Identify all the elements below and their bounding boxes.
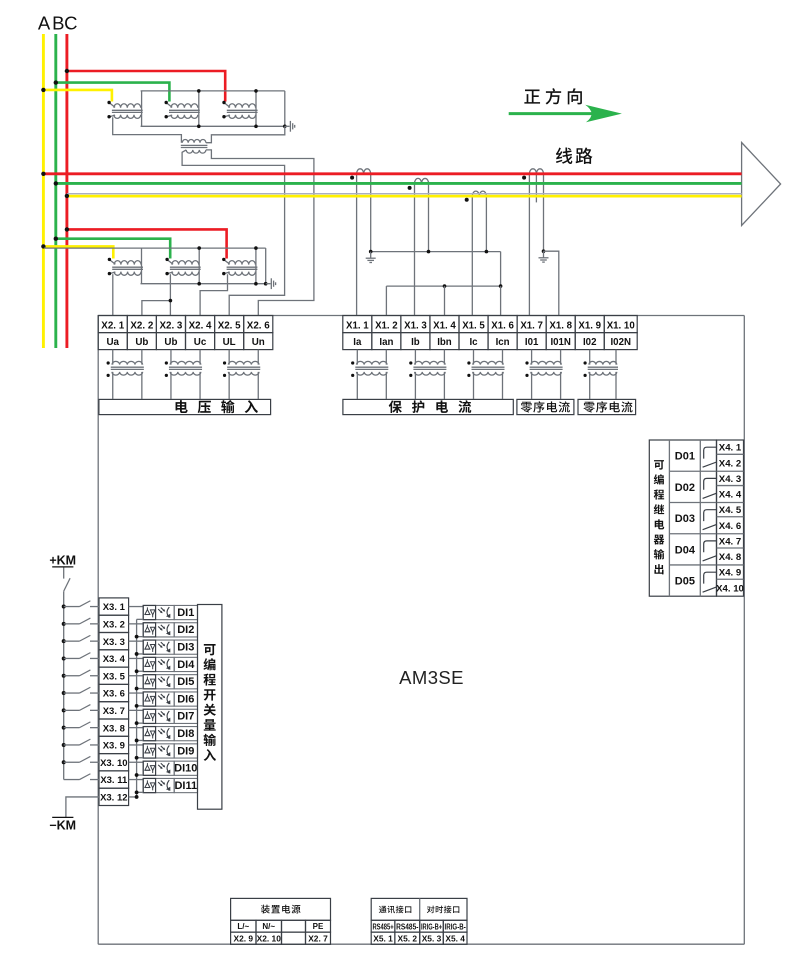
transformer T1 (PT phase A, line side) — [107, 101, 142, 119]
svg-text:X1. 6: X1. 6 — [491, 320, 514, 331]
svg-text:RS485-: RS485- — [396, 922, 419, 931]
optocoupler DI10 — [129, 761, 198, 775]
svg-text:X1. 4: X1. 4 — [433, 320, 456, 331]
wire Ibn to X1.4 — [444, 286, 446, 315]
wire CT neutral bus — [386, 284, 502, 288]
svg-text:X2. 10: X2. 10 — [257, 934, 282, 944]
label +KM — [49, 554, 76, 568]
current transformer TA2 (Ib) on green line — [408, 178, 429, 190]
wire T5 primary-right riser — [198, 248, 200, 284]
label box 零序电流 1 (zero-seq current) — [517, 399, 574, 414]
relay contact K1 — [703, 447, 717, 467]
wire Icn to X1.6 — [500, 286, 502, 315]
label 正方向 (forward direction) — [524, 90, 540, 104]
svg-text:DI7: DI7 — [177, 711, 194, 723]
relay contact K4 — [703, 541, 717, 561]
transformer T3 (PT phase C, line side) — [222, 101, 257, 119]
transformer T6 (PT phase C, bus side) — [222, 258, 257, 276]
power supply box 装置电源 frame — [231, 898, 331, 920]
wire T6 secondary to Uc (X2.4) — [200, 274, 227, 315]
wire Ub jumper X2.2 — [142, 299, 172, 316]
svg-text:X5. 2: X5. 2 — [398, 934, 418, 944]
svg-text:X3. 12: X3. 12 — [100, 793, 127, 804]
svg-text:+KM: +KM — [49, 554, 76, 568]
terminal strip X1 (current inputs) — [343, 316, 637, 350]
wire TV1 primary-right to ground bus — [206, 126, 285, 142]
contact master blade — [64, 578, 70, 591]
wire cable pass-through stub — [535, 174, 537, 203]
node lower PT ground junction — [264, 282, 268, 286]
contact switch row X3.1 — [62, 601, 99, 609]
wire T6 primary-right riser — [255, 248, 257, 284]
svg-text:X3. 6: X3. 6 — [103, 689, 125, 700]
svg-text:X4. 4: X4. 4 — [719, 490, 742, 501]
transformer internal PT3 (UL-Un) — [223, 350, 260, 399]
relay contact K5 — [703, 572, 717, 592]
wire CT secondary ground bus — [369, 250, 501, 254]
wire line phase (green) — [54, 181, 742, 185]
svg-text:X1. 2: X1. 2 — [375, 320, 398, 331]
wire T4 primary-right riser — [141, 248, 143, 284]
wire I01N to X1.8 — [544, 251, 559, 315]
node upper PT ground junction — [283, 125, 287, 129]
svg-text:DI9: DI9 — [177, 745, 194, 757]
optocoupler DI5 — [129, 675, 198, 689]
svg-text:X2. 6: X2. 6 — [247, 320, 270, 331]
svg-text:DI1: DI1 — [177, 607, 194, 619]
wire TA4 S2 to ground — [542, 174, 546, 253]
label 线路 (line) — [556, 147, 572, 164]
svg-text:−KM: −KM — [49, 819, 76, 833]
contact switch row X3.10 — [62, 756, 99, 764]
contact switch row X3.5 — [62, 670, 99, 678]
svg-text:X4. 3: X4. 3 — [719, 474, 741, 485]
transformer internal CT5 (I02) — [584, 350, 619, 399]
svg-text:Ian: Ian — [379, 337, 393, 348]
optocoupler DI8 — [129, 727, 198, 741]
svg-text:X3. 9: X3. 9 — [103, 741, 125, 752]
wire lower PT primary neutral bus — [44, 246, 266, 250]
contact switch row X3.9 — [62, 739, 99, 747]
svg-text:X1. 5: X1. 5 — [462, 320, 485, 331]
svg-text:Icn: Icn — [496, 337, 510, 348]
svg-text:Ub: Ub — [135, 337, 148, 348]
svg-text:IRIG-B-: IRIG-B- — [445, 922, 466, 931]
wire T2 primary-right riser — [198, 91, 200, 126]
svg-text:DI10: DI10 — [174, 763, 197, 775]
wire CT ground bus drop — [500, 252, 502, 287]
transformer T5 (PT phase B, bus side) — [165, 258, 200, 276]
svg-text:X4. 2: X4. 2 — [719, 458, 741, 469]
svg-text:I02N: I02N — [610, 337, 630, 348]
wire tap to PT T2 primary (green) — [54, 80, 170, 101]
contact switch row X3.3 — [62, 635, 99, 643]
wire line neutral (thin gray) — [67, 193, 742, 195]
wire X3.12 to -KM — [66, 797, 137, 817]
transformer T4 (PT phase A, bus side) — [108, 258, 143, 276]
svg-text:X4. 9: X4. 9 — [719, 568, 741, 579]
optocoupler DI6 — [129, 692, 198, 706]
svg-text:X2. 3: X2. 3 — [160, 320, 183, 331]
optocoupler DI2 — [129, 623, 198, 637]
svg-text:I01N: I01N — [550, 337, 570, 348]
terminal cells comm (RS485/IRIG-B, X5.1-X5.4) — [371, 920, 467, 944]
wire tap to PT T1 primary (yellow) — [41, 88, 112, 102]
svg-text:D03: D03 — [675, 513, 695, 525]
label 可编程继电器输出 (programmable relay outputs) — [654, 460, 664, 470]
svg-text:Ibn: Ibn — [437, 337, 452, 348]
terminal strip X4 grid — [717, 440, 744, 596]
optocoupler DI3 — [129, 640, 198, 654]
svg-text:Ia: Ia — [353, 337, 362, 348]
label box 电压输入 (voltage input) — [99, 399, 271, 414]
svg-text:X3. 10: X3. 10 — [100, 758, 127, 769]
wire lower PT secondary bus — [141, 282, 266, 286]
label box 零序电流 2 (zero-seq current) — [578, 399, 636, 414]
ground CT star point — [366, 252, 376, 263]
terminal strip X3 (switch inputs) — [99, 598, 129, 806]
svg-text:Ua: Ua — [106, 337, 119, 348]
wire tap to PT T6 primary (red) — [65, 227, 227, 258]
wire TA3 S2 to ground bus — [485, 196, 487, 252]
wire TA4 S1 to X1.7 — [528, 174, 530, 316]
svg-text:X2. 5: X2. 5 — [218, 320, 241, 331]
optocoupler DI7 — [129, 709, 198, 723]
relay contact K2 — [703, 478, 717, 498]
svg-text:Ic: Ic — [469, 337, 478, 348]
ground upper PT group (right-pointing earth) — [285, 121, 295, 132]
wire TA2 S2 to ground bus — [428, 183, 430, 251]
svg-text:X5. 1: X5. 1 — [373, 934, 393, 944]
svg-text:DI5: DI5 — [177, 676, 194, 688]
svg-text:X3. 3: X3. 3 — [103, 637, 125, 648]
transformer internal PT1 (Ua-Ub) — [107, 350, 144, 399]
svg-text:X4. 10: X4. 10 — [716, 583, 744, 594]
current transformer TA3 (Ic) on yellow line — [465, 191, 487, 202]
optocoupler DI9 — [129, 744, 198, 758]
wire T1 secondary to TV primary — [113, 117, 182, 143]
svg-text:X3. 5: X3. 5 — [103, 671, 126, 682]
wire phase B vertical (green) — [54, 34, 57, 348]
contact switch row X3.4 — [62, 653, 99, 661]
svg-text:X5. 3: X5. 3 — [422, 934, 442, 944]
wire line phase (red) — [41, 172, 741, 176]
svg-text:PE: PE — [313, 922, 324, 931]
wire tap to PT T3 primary (red) — [65, 69, 226, 102]
svg-text:X1. 10: X1. 10 — [607, 320, 635, 331]
svg-text:RS485+: RS485+ — [372, 922, 393, 931]
transformer internal PT2 (Ub-Uc) — [165, 350, 202, 399]
svg-text:X2. 1: X2. 1 — [101, 320, 124, 331]
svg-text:D01: D01 — [675, 451, 695, 463]
wire T5 secondary to Ub (X2.3) — [169, 274, 171, 315]
svg-text:Uc: Uc — [194, 337, 207, 348]
optocoupler DI11 — [129, 778, 198, 792]
svg-text:L/~: L/~ — [237, 922, 249, 931]
optocoupler DI1 — [129, 605, 198, 619]
transformer internal CT2 (Ib) — [409, 350, 446, 399]
svg-text:A: A — [38, 13, 51, 34]
current transformer TA1 (Ia) on red line — [350, 169, 371, 180]
svg-text:I01: I01 — [525, 337, 539, 348]
svg-text:DI6: DI6 — [177, 693, 194, 705]
wire T3 primary-right riser — [255, 91, 257, 126]
svg-text:D04: D04 — [675, 544, 696, 556]
transformer internal CT1 (Ia) — [351, 350, 388, 399]
label box 可编程开关量输入 (programmable switch inputs) — [198, 605, 222, 810]
svg-text:X5. 4: X5. 4 — [445, 934, 465, 944]
transformer T2 (PT phase B, line side) — [165, 101, 200, 119]
svg-text:X3. 8: X3. 8 — [103, 723, 125, 734]
wire Ian to X1.2 — [385, 286, 387, 315]
wire TA2 S1 to X1.3 — [414, 183, 416, 315]
svg-text:X4. 8: X4. 8 — [719, 552, 742, 563]
wire T4 secondary to Ua (X2.1) — [112, 274, 114, 315]
svg-text:X3. 11: X3. 11 — [100, 775, 128, 786]
svg-text:X2. 9: X2. 9 — [234, 934, 254, 944]
transformer TV1 (line PT for UL) — [181, 140, 208, 154]
svg-text:N/~: N/~ — [262, 922, 275, 931]
svg-text:B: B — [52, 13, 64, 34]
svg-text:DI11: DI11 — [174, 780, 197, 792]
wire line phase (yellow) — [65, 194, 742, 198]
wire phase A vertical (yellow) — [42, 34, 45, 348]
svg-text:X2. 4: X2. 4 — [189, 320, 212, 331]
wire lower bus right drop — [265, 248, 267, 284]
svg-text:X1. 7: X1. 7 — [520, 320, 543, 331]
contact switch row X3.11 — [64, 774, 99, 780]
svg-text:X4. 1: X4. 1 — [719, 443, 742, 454]
wire upper PT secondary bus — [141, 125, 285, 129]
svg-text:D02: D02 — [675, 482, 695, 494]
svg-text:X3. 7: X3. 7 — [103, 706, 125, 717]
label -KM — [49, 817, 76, 832]
ground lower PT group (right-pointing earth) — [266, 278, 276, 289]
arrow forward direction (green) — [509, 105, 622, 123]
wire +KM rail — [63, 568, 65, 780]
svg-text:X4. 7: X4. 7 — [719, 536, 741, 547]
svg-text:IRIG-B+: IRIG-B+ — [421, 922, 442, 931]
wire upper PT primary neutral bus — [141, 89, 285, 93]
svg-text:D05: D05 — [675, 576, 695, 588]
svg-text:X3. 2: X3. 2 — [103, 620, 125, 631]
svg-text:X1. 8: X1. 8 — [549, 320, 572, 331]
wire TV1 secondary-left to UL (X2.5) — [182, 150, 285, 316]
svg-text:X4. 5: X4. 5 — [719, 505, 742, 516]
terminal strip X2 (voltage inputs) — [98, 316, 273, 350]
wire tap to PT T4 primary (yellow) — [41, 244, 113, 258]
wire tap to PT T5 primary (green) — [54, 237, 171, 259]
terminal cells power supply (L/~ N/~ PE, X2.9 X2.10 X2.7) — [231, 920, 331, 944]
svg-text:I02: I02 — [583, 337, 596, 348]
svg-text:DI8: DI8 — [177, 728, 194, 740]
svg-text:X3. 1: X3. 1 — [103, 602, 126, 613]
ground zero-sequence CT — [539, 251, 549, 262]
device box AM3SE outline — [98, 316, 744, 945]
svg-text:DI4: DI4 — [177, 659, 195, 671]
wire TA1 S2 to ground node — [370, 174, 372, 252]
svg-text:X1. 9: X1. 9 — [578, 320, 601, 331]
wire TV1 secondary-right to Un (X2.6) — [206, 150, 314, 316]
svg-text:X2. 2: X2. 2 — [130, 320, 153, 331]
svg-text:X1. 1: X1. 1 — [346, 320, 369, 331]
wire upper bus right drop — [284, 91, 286, 126]
svg-text:UL: UL — [223, 337, 236, 348]
wire DI common chain to X3.12 — [135, 619, 139, 799]
svg-text:DI3: DI3 — [177, 641, 194, 653]
relay output table frame — [649, 440, 716, 596]
svg-text:X3. 4: X3. 4 — [103, 654, 126, 665]
wire phase C vertical (red) — [65, 34, 68, 348]
optocoupler DI4 — [129, 657, 198, 671]
contact switch row X3.6 — [62, 687, 99, 695]
transformer internal CT3 (Ic) — [467, 350, 504, 399]
svg-text:X2. 7: X2. 7 — [308, 934, 328, 944]
arrow line terminus (open triangle) — [742, 143, 781, 226]
contact switch row X3.8 — [62, 722, 99, 730]
label box 保护电流 (protection current) — [343, 399, 513, 414]
svg-text:DI2: DI2 — [177, 624, 194, 636]
svg-text:Un: Un — [252, 337, 265, 348]
wire T1 primary-right riser — [141, 91, 143, 126]
svg-text:AM3SE: AM3SE — [399, 667, 464, 688]
svg-text:X1. 3: X1. 3 — [404, 320, 427, 331]
svg-text:X4. 6: X4. 6 — [719, 521, 741, 532]
svg-text:Ib: Ib — [411, 337, 420, 348]
svg-text:Ub: Ub — [164, 337, 177, 348]
current transformer TA4 (I01 zero-sequence) — [522, 169, 543, 180]
wire TA3 S1 to X1.5 — [471, 196, 473, 315]
wire TA1 S1 to X1.1 — [356, 174, 358, 316]
relay contact K3 — [703, 510, 717, 530]
contact switch row X3.2 — [62, 618, 99, 626]
svg-text:C: C — [64, 13, 77, 34]
contact switch row X3.7 — [62, 705, 99, 713]
transformer internal CT4 (I01) — [525, 350, 562, 399]
comm box 通讯接口/对时接口 frame — [371, 898, 467, 920]
